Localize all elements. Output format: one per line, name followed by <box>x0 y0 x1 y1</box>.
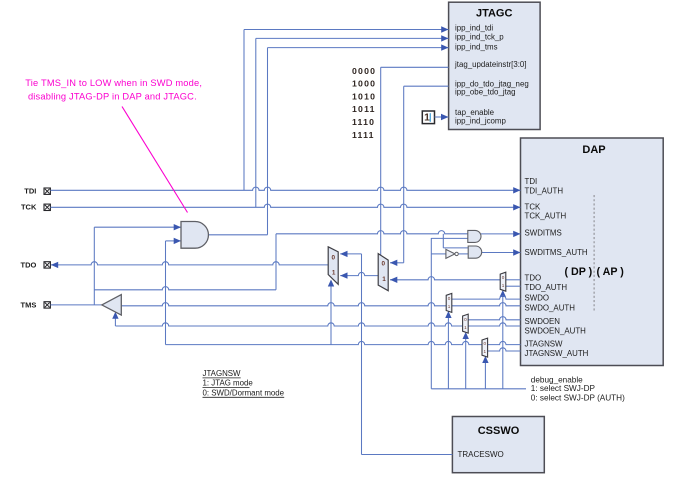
svg-text:SWDITMS: SWDITMS <box>525 228 562 237</box>
svg-text:jtag_updateinstr[3:0]: jtag_updateinstr[3:0] <box>454 60 527 69</box>
svg-text:0: 0 <box>332 255 336 262</box>
svg-text:ipp_ind_tdi: ipp_ind_tdi <box>455 23 493 32</box>
svg-text:TCK_AUTH: TCK_AUTH <box>525 211 567 220</box>
svg-text:1000: 1000 <box>352 79 376 89</box>
svg-text:JTAGNSW: JTAGNSW <box>203 369 242 378</box>
svg-text:1: 1 <box>332 270 336 277</box>
svg-text:0: select SWJ-DP (AUTH): 0: select SWJ-DP (AUTH) <box>531 393 625 402</box>
svg-text:CSSWO: CSSWO <box>478 425 520 437</box>
svg-text:disabling JTAG-DP in DAP and J: disabling JTAG-DP in DAP and JTAGC. <box>28 92 197 102</box>
svg-text:ipp_ind_tms: ipp_ind_tms <box>455 42 498 51</box>
svg-text:SWDOEN_AUTH: SWDOEN_AUTH <box>525 326 587 335</box>
svg-text:1010: 1010 <box>352 91 376 101</box>
svg-text:0: 0 <box>502 275 505 280</box>
svg-text:0: 0 <box>464 317 467 322</box>
svg-text:ipp_obe_tdo_jtag: ipp_obe_tdo_jtag <box>455 87 516 96</box>
svg-text:TCK: TCK <box>21 203 37 212</box>
svg-text:1: 1 <box>382 276 386 283</box>
svg-text:0: 0 <box>448 296 451 301</box>
svg-text:1: 1 <box>424 112 430 124</box>
svg-text:1: 1 <box>484 349 487 354</box>
svg-text:TDI: TDI <box>525 177 538 186</box>
svg-text:1: 1 <box>502 283 505 288</box>
svg-text:0: SWD/Dormant mode: 0: SWD/Dormant mode <box>203 388 285 397</box>
svg-text:1111: 1111 <box>352 130 375 140</box>
svg-text:1: 1 <box>464 325 467 330</box>
svg-text:TMS: TMS <box>21 300 37 309</box>
svg-text:SWDITMS_AUTH: SWDITMS_AUTH <box>525 248 588 257</box>
svg-text:ipp_ind_jcomp: ipp_ind_jcomp <box>455 116 506 125</box>
svg-text:TRACESWO: TRACESWO <box>458 450 504 459</box>
svg-text:TDI_AUTH: TDI_AUTH <box>525 186 564 195</box>
svg-text:SWDO_AUTH: SWDO_AUTH <box>525 303 576 312</box>
svg-text:( AP ): ( AP ) <box>597 266 625 278</box>
svg-text:TDO: TDO <box>525 274 542 283</box>
svg-text:SWDOEN: SWDOEN <box>525 317 561 326</box>
svg-text:TDO_AUTH: TDO_AUTH <box>525 283 568 292</box>
svg-text:JTAGNSW: JTAGNSW <box>525 340 564 349</box>
svg-text:1: 1 <box>448 304 451 309</box>
svg-text:JTAGC: JTAGC <box>476 7 513 19</box>
svg-text:( DP ): ( DP ) <box>565 266 593 278</box>
svg-text:0: 0 <box>382 260 386 267</box>
svg-text:Tie TMS_IN to LOW when in SWD: Tie TMS_IN to LOW when in SWD mode, <box>25 78 202 88</box>
svg-text:JTAGNSW_AUTH: JTAGNSW_AUTH <box>525 349 589 358</box>
svg-text:1: select SWJ-DP: 1: select SWJ-DP <box>531 384 596 393</box>
svg-text:DAP: DAP <box>582 144 605 156</box>
svg-text:TDI: TDI <box>24 187 36 196</box>
svg-text:1011: 1011 <box>352 104 376 114</box>
svg-text:0000: 0000 <box>352 66 376 76</box>
svg-text:1110: 1110 <box>352 117 375 127</box>
svg-text:1: JTAG mode: 1: JTAG mode <box>203 379 254 388</box>
svg-text:TDO: TDO <box>21 260 37 269</box>
svg-text:ipp_ind_tck_p: ipp_ind_tck_p <box>455 33 504 42</box>
svg-text:0: 0 <box>484 341 487 346</box>
svg-text:SWDO: SWDO <box>525 293 550 302</box>
svg-text:TCK: TCK <box>525 202 542 211</box>
